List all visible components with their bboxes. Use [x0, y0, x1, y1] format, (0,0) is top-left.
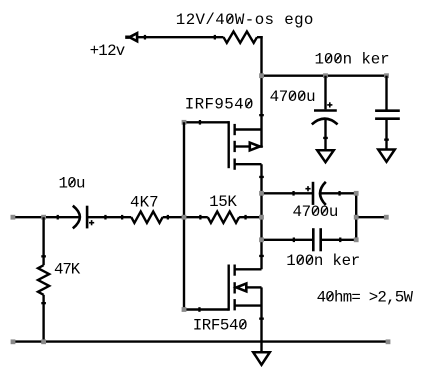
svg-text:7: 7	[279, 88, 288, 106]
wire output bottom branch left segment	[262, 239, 314, 241]
wire input segment left	[15, 216, 79, 218]
svg-text:k: k	[361, 50, 370, 68]
wire output bottom branch right segment	[321, 239, 357, 241]
wire input segment middle	[87, 216, 131, 218]
svg-text:I: I	[185, 96, 194, 114]
junction dot output vertical lower	[259, 255, 264, 257]
label + polarity of output 4700u	[305, 186, 310, 191]
wire IRF540 source to ground	[260, 287, 262, 352]
junction dot on +12V vertical	[259, 114, 264, 116]
capacitor C 4700u (output electrolytic)	[313, 182, 326, 205]
capacitor C 4700u (decoupling electrolytic)	[312, 76, 338, 151]
svg-text:2: 2	[186, 11, 195, 29]
svg-text:n: n	[314, 252, 323, 270]
junction dot before output 4700u	[292, 191, 294, 196]
svg-text:=: =	[351, 288, 360, 306]
junction right vertical bottom corner	[354, 237, 359, 242]
junction dot on IRF540 gate lead	[198, 307, 200, 312]
wire output top branch left segment	[262, 192, 314, 194]
label IRF540	[193, 317, 248, 335]
svg-text:4: 4	[293, 203, 302, 221]
svg-text:e: e	[284, 11, 293, 29]
svg-text:e: e	[371, 50, 380, 68]
svg-text:4: 4	[229, 317, 238, 335]
wire 4K7 to 15K	[163, 216, 208, 218]
resistor R 12V/40W-os ego (bulb dropper)	[224, 32, 258, 43]
wire decoupling branch horizontal	[262, 74, 387, 76]
junction ground rail at 47K	[41, 339, 46, 344]
label +12v	[90, 42, 126, 60]
transistor Q1 IRF9540 P-MOSFET	[229, 121, 263, 170]
label 4700u (decoupling)	[270, 88, 316, 106]
svg-text:R: R	[195, 96, 205, 114]
wire resistor to corner	[257, 36, 263, 38]
svg-text:1: 1	[315, 50, 324, 68]
junction dot before output 100n	[293, 238, 295, 243]
svg-text:5: 5	[224, 96, 233, 114]
svg-text:K: K	[227, 193, 237, 211]
svg-text:g: g	[294, 11, 303, 29]
svg-text:I: I	[193, 317, 202, 335]
node input terminal	[11, 215, 16, 220]
svg-text:o: o	[255, 11, 264, 29]
resistor R 4K7	[131, 212, 162, 223]
label 12V/40W-os ego	[176, 11, 314, 29]
junction output node to 100n branch	[259, 237, 264, 242]
junction output stub	[354, 215, 359, 220]
wire IRF9540 gate lead	[184, 121, 229, 123]
wire IRF540 gate lead	[184, 308, 229, 310]
junction dot after output 100n	[339, 238, 341, 243]
capacitor C 100n ker (output ceramic)	[313, 228, 320, 251]
node output terminal	[384, 215, 389, 220]
label 4700u (output)	[293, 203, 339, 221]
junction dot after 15K	[244, 215, 246, 220]
svg-text:5: 5	[218, 193, 227, 211]
junction dot after output 4700u	[338, 191, 340, 196]
svg-text:u: u	[306, 88, 315, 106]
svg-text:o: o	[304, 11, 313, 29]
junction dot on source line	[259, 318, 264, 320]
wire output node vertical	[260, 164, 262, 269]
junction decoupling at C 4700u	[323, 73, 328, 78]
svg-text:r: r	[380, 50, 389, 68]
junction right vertical top corner	[354, 191, 359, 196]
svg-text:e: e	[342, 252, 351, 270]
capacitor C 100n ker (decoupling ceramic)	[375, 76, 400, 150]
label 4K7	[130, 194, 159, 212]
wire 47K upper lead	[42, 217, 44, 265]
svg-text:u: u	[76, 174, 85, 192]
svg-text:9: 9	[214, 96, 223, 114]
power arrow +12V terminal	[125, 33, 137, 41]
svg-text:W: W	[235, 11, 245, 29]
svg-text:7: 7	[302, 203, 311, 221]
svg-text:1: 1	[286, 252, 295, 270]
svg-text:-: -	[245, 11, 254, 29]
node ground rail right terminal	[386, 339, 391, 344]
wire gate bias line vertical	[183, 122, 185, 309]
svg-text:1: 1	[176, 11, 185, 29]
junction dot output vertical upper	[259, 176, 264, 178]
ground symbol main	[253, 352, 270, 365]
junction gate line mid (input node)	[182, 215, 187, 220]
junction gate line top	[182, 120, 187, 125]
junction dot on +12V rail left	[144, 35, 146, 40]
svg-text:7: 7	[149, 194, 158, 212]
label 4Ohm= >2,5W note	[317, 288, 414, 306]
junction dot below 47K	[41, 302, 46, 304]
svg-text:4: 4	[270, 88, 279, 106]
junction +12V rail to decoupling	[259, 73, 264, 78]
svg-text:n: n	[343, 50, 352, 68]
junction dot on +12V rail before resistor	[214, 35, 216, 40]
label 15K	[209, 193, 237, 211]
wire 47K lower lead	[42, 295, 44, 342]
ground symbol under 100n ker	[378, 150, 395, 162]
wire output top branch right segment	[321, 192, 357, 194]
junction dot input wire	[57, 215, 59, 220]
svg-text:k: k	[332, 252, 341, 270]
wire output stub	[356, 216, 384, 218]
junction dot after 10u	[104, 215, 106, 220]
node ground rail left terminal	[11, 339, 16, 344]
junction output node to 4700u branch	[259, 191, 264, 196]
junction dot above 47K	[41, 255, 46, 257]
svg-text:K: K	[71, 261, 81, 279]
label 10u	[59, 174, 86, 192]
svg-text:1: 1	[209, 193, 218, 211]
svg-text:V: V	[196, 11, 206, 29]
svg-text:s: s	[265, 11, 274, 29]
svg-text:v: v	[116, 42, 125, 60]
junction dot after 4K7	[167, 215, 169, 220]
svg-text:4: 4	[234, 96, 243, 114]
ground symbol under 4700u	[317, 150, 334, 162]
wire ground rail bottom	[15, 340, 388, 342]
svg-text:W: W	[404, 288, 414, 306]
wire 15K to output node	[239, 216, 261, 218]
label 100n ker (output)	[286, 252, 360, 270]
label IRF9540	[185, 96, 254, 114]
transistor Q2 IRF540 N-MOSFET	[229, 265, 262, 311]
svg-text:4: 4	[215, 11, 224, 29]
label 100n ker (top)	[315, 50, 390, 68]
label + polarity of 10u	[89, 220, 94, 225]
wire +12V vertical down to IRF9540 source	[260, 36, 262, 148]
svg-text:5: 5	[220, 317, 229, 335]
junction dot before 15K	[199, 215, 201, 220]
resistor R 15K	[208, 212, 239, 223]
junction output node mid	[259, 215, 264, 220]
wire +12V rail top horizontal	[128, 36, 224, 38]
label + polarity of 4700u	[327, 102, 332, 107]
svg-text:4: 4	[130, 194, 139, 212]
svg-text:u: u	[329, 203, 338, 221]
junction dot on IRF9540 gate lead	[199, 120, 201, 125]
junction input to 47K	[41, 215, 46, 220]
capacitor C 10u (input electrolytic)	[73, 206, 87, 229]
svg-text:K: K	[140, 194, 150, 212]
wire output right vertical	[355, 193, 357, 240]
junction decoupling corner at C 100n ker	[384, 73, 389, 78]
svg-text:F: F	[205, 96, 214, 114]
junction dot before 4K7	[121, 215, 123, 220]
svg-text:r: r	[351, 252, 360, 270]
junction gate line bottom	[182, 307, 187, 312]
resistor R 47K	[38, 265, 49, 295]
svg-text:/: /	[205, 11, 214, 29]
label 47K	[54, 261, 81, 279]
